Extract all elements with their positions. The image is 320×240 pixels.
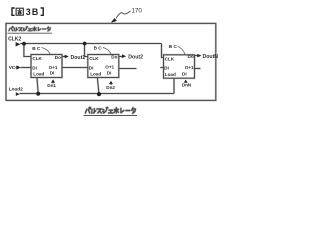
svg-text:Di: Di — [182, 72, 187, 77]
svg-text:CLK: CLK — [165, 56, 175, 61]
svg-text:Load2: Load2 — [9, 86, 23, 92]
svg-text:O+1: O+1 — [105, 65, 114, 70]
svg-text:CLK: CLK — [89, 56, 99, 61]
svg-text:Di: Di — [50, 71, 55, 76]
svg-text:Load: Load — [33, 71, 44, 76]
svg-text:170: 170 — [132, 8, 143, 15]
svg-text:Di: Di — [89, 65, 94, 70]
svg-text:B C: B C — [32, 46, 41, 51]
svg-text:CLK: CLK — [32, 56, 42, 61]
svg-text:Do: Do — [188, 54, 194, 59]
svg-text:DnN: DnN — [182, 82, 192, 87]
svg-text:B C: B C — [169, 44, 178, 49]
svg-text:3: 3 — [26, 7, 31, 17]
svg-text:Dout2: Dout2 — [128, 54, 143, 60]
svg-text:Do: Do — [111, 55, 117, 60]
svg-text:DoutN: DoutN — [203, 54, 219, 60]
svg-text:O+1: O+1 — [49, 65, 58, 70]
svg-text:Di: Di — [107, 71, 112, 76]
svg-text:Load: Load — [90, 71, 101, 76]
svg-text:Di: Di — [164, 66, 169, 71]
svg-text:CLK2: CLK2 — [8, 37, 21, 43]
svg-text:Di: Di — [32, 65, 37, 70]
svg-text:Dn2: Dn2 — [106, 85, 115, 90]
svg-text:Load: Load — [165, 72, 176, 77]
svg-text:Dout1: Dout1 — [71, 55, 86, 61]
svg-text:Do: Do — [55, 55, 61, 60]
svg-text:B C: B C — [94, 45, 103, 50]
svg-text:Dn1: Dn1 — [47, 83, 56, 88]
svg-text:O+1: O+1 — [185, 65, 194, 70]
svg-text:B: B — [32, 7, 38, 17]
